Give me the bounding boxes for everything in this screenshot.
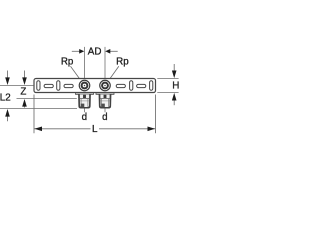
svg-text:L: L <box>92 124 98 135</box>
svg-text:AD: AD <box>88 47 102 58</box>
svg-text:H: H <box>172 81 179 92</box>
svg-text:d: d <box>82 112 87 123</box>
svg-text:d: d <box>102 112 107 123</box>
svg-text:Rp: Rp <box>61 56 74 67</box>
svg-text:Rp: Rp <box>116 56 129 67</box>
svg-text:Z: Z <box>20 86 26 97</box>
svg-text:L2: L2 <box>0 93 11 104</box>
